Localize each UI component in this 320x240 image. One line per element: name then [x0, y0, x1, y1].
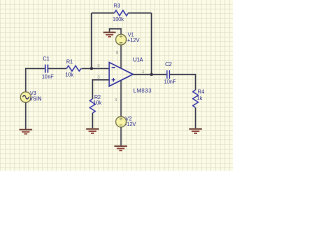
ground (V1)	[103, 32, 115, 36]
wire op-amp pin 4 power	[120, 81, 122, 117]
svg-text:10k: 10k	[65, 73, 74, 79]
svg-text:1k: 1k	[197, 96, 203, 102]
svg-text:C1: C1	[43, 57, 50, 63]
resistor R4	[193, 89, 205, 107]
wire V1 top to ground	[110, 29, 122, 35]
wire feedback top right horizontal	[128, 12, 151, 14]
junction at R1 / feedback	[90, 67, 93, 70]
wire V3 to ground	[25, 103, 27, 130]
wire R1 to op-amp pin 2	[82, 68, 110, 70]
wire V2 to ground	[120, 127, 122, 145]
wire op-amp pin 8 power	[120, 45, 122, 68]
svg-text:10nF: 10nF	[42, 75, 54, 81]
resistor R3	[113, 4, 129, 23]
wire op-amp pin 3 to R2	[93, 80, 110, 99]
voltage source V3	[20, 91, 41, 102]
svg-text:8: 8	[116, 50, 119, 55]
ground (V2)	[114, 146, 127, 150]
svg-text:4: 4	[115, 97, 118, 102]
ground (V3)	[19, 130, 32, 134]
capacitor C2	[164, 62, 176, 85]
svg-text:-12V: -12V	[125, 122, 136, 128]
ground (R2)	[86, 129, 99, 133]
svg-text:VSIN: VSIN	[29, 97, 41, 103]
wire C2 to R4 corner	[170, 75, 196, 91]
svg-text:10nF: 10nF	[164, 79, 176, 85]
svg-text:+12V: +12V	[127, 38, 140, 44]
voltage source V2	[116, 116, 137, 128]
svg-text:LM833: LM833	[133, 89, 152, 95]
svg-text:R4: R4	[198, 89, 205, 95]
svg-text:10k: 10k	[93, 101, 102, 107]
capacitor C1	[42, 57, 54, 81]
svg-text:C2: C2	[165, 62, 172, 68]
wire output op-amp to C2	[133, 74, 167, 76]
wire feedback left vertical	[91, 13, 93, 69]
voltage source V1	[116, 32, 140, 45]
svg-text:2: 2	[97, 63, 100, 68]
wire input net: V3 to C1 horizontal	[25, 68, 45, 70]
wire feedback right vertical	[151, 13, 153, 75]
svg-text:1: 1	[142, 69, 145, 74]
wire input net: V3 up-left vertical	[25, 69, 27, 92]
ground (R4)	[189, 129, 202, 133]
svg-text:R3: R3	[114, 4, 121, 10]
svg-text:R1: R1	[66, 60, 73, 66]
svg-text:U1A: U1A	[133, 57, 144, 63]
wire C1 to R1	[48, 68, 66, 70]
op-amp U1A	[109, 57, 152, 94]
svg-text:100k: 100k	[113, 17, 125, 23]
wire feedback top left horizontal	[92, 12, 115, 14]
resistor R1	[65, 60, 81, 79]
wire R4 to ground	[195, 108, 197, 129]
resistor R2	[90, 95, 102, 113]
junction at output / feedback	[150, 73, 153, 76]
svg-text:3: 3	[97, 75, 100, 80]
wire R2 to ground	[92, 113, 94, 128]
